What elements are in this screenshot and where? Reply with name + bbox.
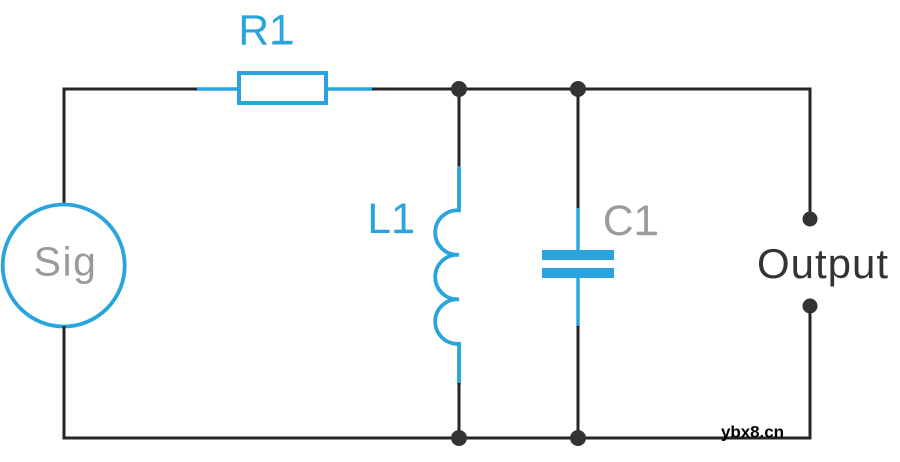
wire capacitor branch lower (black)	[577, 326, 580, 438]
wire left vertical upper (top wire down to source)	[63, 88, 66, 208]
inductor L1 coil	[435, 168, 459, 384]
wire inductor branch lower (black)	[458, 383, 461, 438]
svg-text:Sig: Sig	[34, 239, 98, 285]
capacitor C1 top plate	[542, 250, 614, 260]
wire left vertical lower (source to bottom wire)	[63, 326, 66, 440]
label L1 digit foot bar	[395, 230, 413, 233]
svg-text:C1: C1	[603, 198, 657, 245]
svg-text:L1: L1	[367, 196, 414, 243]
wire top-left horizontal (source to resistor)	[63, 88, 199, 91]
wire capacitor branch upper (black)	[577, 89, 580, 209]
svg-text:Output: Output	[757, 240, 889, 287]
wire resistor lead right (blue)	[326, 87, 373, 90]
label R1 digit foot bar	[275, 41, 293, 44]
junction node top A (inductor tap)	[451, 81, 467, 97]
junction node bottom B (capacitor tap)	[570, 430, 586, 446]
svg-text:ybx8.cn: ybx8.cn	[721, 423, 784, 442]
source Sig circle	[3, 205, 125, 327]
wire top middle horizontal (resistor to output corner)	[372, 88, 812, 91]
wire capacitor lead lower (blue)	[576, 277, 579, 327]
junction node bottom A (inductor tap)	[451, 430, 467, 446]
capacitor C1 bottom plate	[542, 268, 614, 278]
wire resistor lead left (blue)	[197, 87, 240, 90]
wire right vertical upper (to output terminal)	[809, 88, 812, 215]
label C1 digit foot bar	[639, 232, 657, 235]
output terminal upper	[803, 212, 818, 227]
svg-text:R1: R1	[238, 7, 292, 54]
wire capacitor lead upper (blue)	[576, 208, 579, 251]
resistor R1 body	[239, 73, 326, 103]
output terminal lower	[803, 299, 818, 314]
junction node top B (capacitor tap)	[570, 81, 586, 97]
wire inductor branch upper (black)	[458, 89, 461, 170]
wire right vertical lower (terminal to bottom wire)	[809, 311, 812, 440]
wire bottom horizontal	[63, 437, 812, 440]
